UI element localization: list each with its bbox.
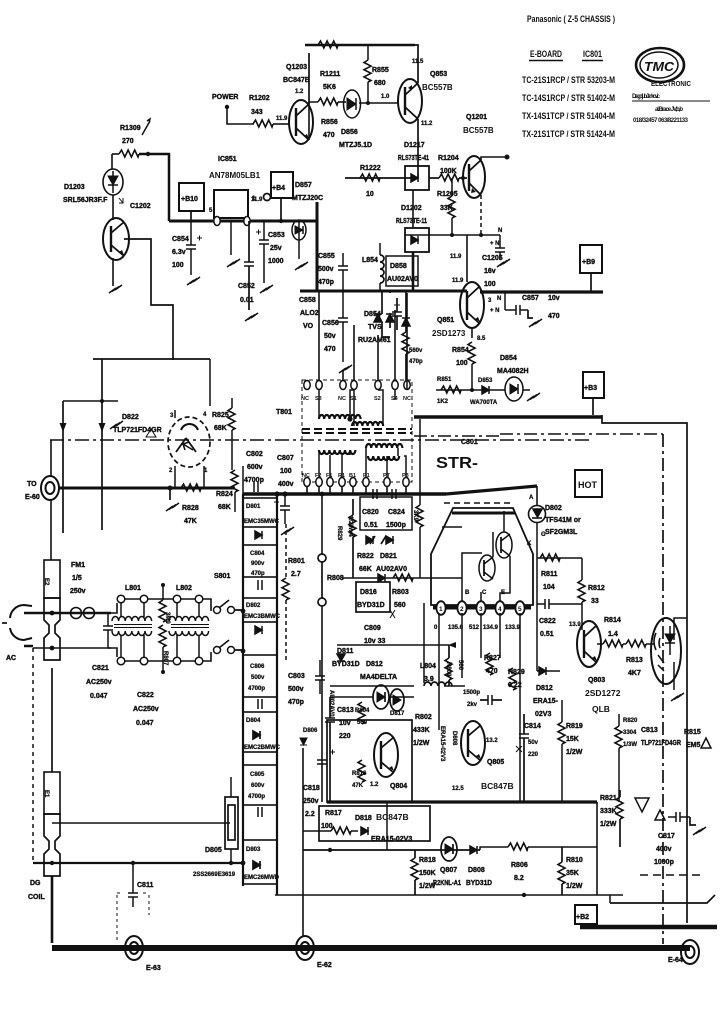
svg-text:0.047: 0.047 bbox=[90, 693, 108, 700]
wire +B4 stem bbox=[280, 198, 282, 221]
diode D1217 box bbox=[405, 166, 429, 190]
diode pair D854 bbox=[374, 314, 394, 322]
resistor R816 vertical bbox=[358, 760, 365, 782]
logo TMC ellipse bbox=[636, 48, 684, 82]
junction bbox=[282, 491, 287, 496]
svg-text:R816: R816 bbox=[352, 771, 367, 777]
svg-text:TC-14S1RCP / STR 51402-M: TC-14S1RCP / STR 51402-M bbox=[522, 93, 615, 103]
L801 stubs bbox=[121, 603, 144, 657]
diode D802b bbox=[255, 626, 262, 634]
wire +B10 stem bbox=[190, 211, 192, 221]
capacitor snubber bbox=[392, 312, 402, 316]
resistor R804 vertical bbox=[358, 702, 365, 724]
svg-text:BC557B: BC557B bbox=[463, 126, 494, 135]
wire Q851 base up bbox=[466, 235, 468, 282]
transistor Q853 bbox=[398, 79, 422, 123]
dashes AC vertical bbox=[32, 648, 34, 863]
svg-text:D817: D817 bbox=[390, 711, 405, 717]
resistor 3K9 vertical bbox=[416, 505, 423, 527]
svg-text:AU02AV0: AU02AV0 bbox=[387, 276, 418, 283]
dashed box C811 bbox=[117, 895, 149, 943]
L801 winding top bbox=[112, 617, 152, 622]
wire x63 down bbox=[62, 401, 64, 533]
junction bbox=[461, 176, 465, 180]
wire y558 bbox=[537, 557, 582, 559]
svg-text:BC847B: BC847B bbox=[283, 77, 310, 84]
svg-text:R854: R854 bbox=[452, 347, 469, 354]
svg-text:D822: D822 bbox=[122, 414, 139, 421]
resistor R810 vertical bbox=[558, 862, 565, 884]
svg-text:100: 100 bbox=[321, 823, 333, 830]
wire AC top bbox=[33, 612, 111, 615]
svg-text:133.9: 133.9 bbox=[505, 625, 521, 631]
svg-text:R815: R815 bbox=[684, 729, 701, 736]
svg-text:R817: R817 bbox=[325, 810, 342, 817]
wire R854 down bbox=[471, 364, 473, 390]
svg-text:1.0: 1.0 bbox=[381, 94, 390, 100]
svg-text:343: 343 bbox=[251, 109, 263, 116]
diode D821 sym bbox=[378, 574, 385, 582]
wire D856 to Q853 base bbox=[359, 102, 398, 104]
svg-text:D802: D802 bbox=[246, 603, 261, 609]
bottom winding feeds bbox=[319, 448, 406, 477]
diode D804 bbox=[253, 731, 260, 739]
svg-text:3304: 3304 bbox=[623, 730, 637, 736]
svg-text:C821: C821 bbox=[92, 665, 109, 672]
svg-text:Q853: Q853 bbox=[430, 71, 447, 78]
svg-text:11.9: 11.9 bbox=[452, 278, 464, 284]
wire to Q1203 base bbox=[273, 123, 289, 125]
bottom pins bbox=[304, 478, 310, 487]
svg-text:AC: AC bbox=[6, 655, 16, 662]
svg-text:+B10: +B10 bbox=[181, 196, 198, 203]
L801 winding bottom bbox=[112, 631, 152, 636]
svg-text:680: 680 bbox=[374, 80, 386, 87]
ground C852 bbox=[245, 313, 258, 321]
svg-text:1/2Wx4: 1/2Wx4 bbox=[347, 516, 353, 537]
svg-text:R856: R856 bbox=[321, 119, 338, 126]
wire pin3 up bbox=[174, 410, 176, 418]
svg-text:ERA15-02V3: ERA15-02V3 bbox=[439, 726, 445, 762]
svg-text:C806: C806 bbox=[250, 664, 265, 670]
svg-text:1000: 1000 bbox=[268, 258, 284, 265]
junction bbox=[279, 219, 283, 223]
svg-text:470p: 470p bbox=[318, 279, 334, 286]
svg-text:C813: C813 bbox=[641, 727, 658, 734]
junction dot on R1309 wire bbox=[146, 152, 150, 156]
svg-text:R2KNL-A1: R2KNL-A1 bbox=[433, 880, 461, 887]
junction bbox=[131, 861, 135, 865]
svg-text:AU02AV0: AU02AV0 bbox=[376, 566, 407, 573]
junction bbox=[241, 609, 246, 614]
wire Q1201 emitter top right stub bbox=[481, 157, 505, 160]
svg-text:R803: R803 bbox=[392, 589, 409, 596]
wire D805 top bbox=[230, 777, 232, 863]
svg-text:D808: D808 bbox=[451, 731, 457, 746]
ground Q1202 bbox=[109, 285, 122, 293]
svg-text:L804: L804 bbox=[420, 663, 436, 670]
svg-text:02V3: 02V3 bbox=[535, 711, 551, 718]
diode box D801 bbox=[243, 498, 277, 527]
diode D1203 circle bbox=[103, 169, 123, 195]
spark gap R808 bbox=[318, 554, 326, 606]
svg-text:0.047: 0.047 bbox=[136, 720, 154, 727]
svg-text:D808: D808 bbox=[468, 867, 485, 874]
svg-text:C857: C857 bbox=[522, 295, 539, 302]
cap box C806 bbox=[243, 655, 277, 697]
wire E1 drop bbox=[51, 668, 53, 772]
wire D1202 down to snubber rail bbox=[412, 252, 415, 291]
svg-text:R807: R807 bbox=[162, 651, 168, 666]
svg-text:E2: E2 bbox=[43, 578, 49, 586]
svg-text:R801: R801 bbox=[288, 558, 305, 565]
wire Q1203 emitter to R856 line bbox=[309, 102, 318, 140]
svg-text:EMC35MWC: EMC35MWC bbox=[244, 519, 280, 525]
svg-text:C855: C855 bbox=[318, 253, 335, 260]
svg-text:D1202: D1202 bbox=[401, 205, 422, 212]
svg-text:TVS: TVS bbox=[368, 324, 382, 331]
svg-text:D805: D805 bbox=[205, 847, 222, 854]
dash-dot hot boundary right bbox=[414, 434, 663, 436]
svg-text:R828: R828 bbox=[182, 505, 199, 512]
L802 core bbox=[171, 625, 209, 628]
junction bbox=[347, 416, 352, 421]
svg-text:104: 104 bbox=[543, 584, 555, 591]
svg-text:N: N bbox=[498, 228, 502, 234]
resistor R803 zigzag bbox=[393, 574, 413, 581]
logo underline bbox=[632, 100, 710, 102]
svg-text:0.51: 0.51 bbox=[540, 631, 554, 638]
wire R855 top/bottom bbox=[367, 45, 369, 103]
svg-text:R1204: R1204 bbox=[438, 155, 459, 162]
IC801 bottom bar bbox=[433, 605, 531, 610]
line y235 bbox=[405, 234, 500, 236]
vertical x303 bbox=[302, 748, 304, 936]
svg-text:NC: NC bbox=[301, 396, 309, 402]
svg-text:AN78M05LB1: AN78M05LB1 bbox=[209, 171, 261, 180]
arrow x102 bbox=[99, 423, 106, 432]
svg-text:BC847B: BC847B bbox=[376, 812, 409, 822]
thick wire E60 to coupler bbox=[59, 487, 235, 490]
svg-text:F2: F2 bbox=[315, 473, 321, 479]
wire y831 from x303 bbox=[303, 830, 322, 832]
transistor Q1203 bbox=[289, 100, 313, 144]
svg-text:1K2: 1K2 bbox=[437, 399, 449, 405]
svg-text:100: 100 bbox=[280, 468, 292, 475]
resistor R855 vertical bbox=[364, 60, 371, 82]
svg-text:R802: R802 bbox=[415, 714, 432, 721]
svg-text:2: 2 bbox=[460, 606, 464, 613]
wire R1204 to Q1201 bbox=[459, 177, 467, 179]
svg-text:1/2W: 1/2W bbox=[600, 821, 617, 828]
small triangle C817 bbox=[655, 810, 665, 820]
svg-text:470p: 470p bbox=[251, 571, 265, 577]
svg-text:1500p: 1500p bbox=[386, 522, 406, 529]
svg-text:1/2W: 1/2W bbox=[566, 749, 583, 756]
top rail thick bbox=[305, 44, 415, 47]
svg-text:ELECTRONIC: ELECTRONIC bbox=[651, 81, 691, 88]
svg-text:1.2: 1.2 bbox=[295, 89, 304, 95]
svg-text:R1211: R1211 bbox=[320, 71, 340, 78]
core dashes bbox=[302, 429, 412, 433]
svg-text:D1203: D1203 bbox=[64, 184, 85, 191]
test point triangle bbox=[635, 798, 649, 812]
vertical resistor R829 bbox=[349, 515, 356, 537]
svg-text:+ N: + N bbox=[490, 308, 500, 314]
svg-text:C817: C817 bbox=[658, 833, 675, 840]
photocoupler D813 bbox=[651, 618, 681, 684]
svg-text:POWER: POWER bbox=[212, 94, 238, 101]
svg-text:R809: R809 bbox=[445, 662, 451, 677]
primary winding row2 bbox=[352, 422, 383, 426]
wire R808 bottom down bbox=[321, 606, 323, 802]
circled zener Q807 bbox=[441, 837, 457, 861]
svg-text:018/32457 063/8221133: 018/32457 063/8221133 bbox=[633, 118, 689, 124]
vertical wires into bottom block bbox=[439, 628, 520, 802]
resistor R851 zigzag bbox=[441, 386, 461, 393]
IC851 gnd stub bbox=[230, 221, 232, 255]
IC851 pin 5 bbox=[214, 217, 220, 226]
ground stub bbox=[169, 488, 171, 500]
svg-text:10v: 10v bbox=[339, 720, 351, 727]
connector E2 box bbox=[44, 560, 60, 598]
box around Q804 group bbox=[327, 720, 412, 802]
svg-text:220: 220 bbox=[528, 752, 539, 758]
capacitor C855 bbox=[338, 266, 348, 270]
svg-text:66K: 66K bbox=[359, 566, 372, 573]
bottom bus thick bbox=[52, 945, 690, 951]
ground C854 bbox=[187, 277, 200, 285]
svg-text:600v: 600v bbox=[247, 464, 263, 471]
svg-text:470: 470 bbox=[323, 132, 335, 139]
svg-text:E-64: E-64 bbox=[668, 957, 683, 964]
svg-text:13.2: 13.2 bbox=[486, 738, 498, 744]
svg-text:TX-14S1TCP / STR 51404-M: TX-14S1TCP / STR 51404-M bbox=[522, 111, 615, 121]
resistor R818 vertical bbox=[411, 858, 418, 880]
IC801 pins bbox=[436, 601, 524, 615]
wire power down bbox=[227, 107, 254, 124]
wire y401 bbox=[63, 400, 118, 402]
svg-text:B1: B1 bbox=[349, 473, 356, 479]
capacitor C820 bbox=[373, 489, 377, 499]
svg-text:E: E bbox=[501, 590, 505, 596]
svg-text:FM1: FM1 bbox=[71, 562, 85, 569]
svg-text:R825: R825 bbox=[212, 412, 229, 419]
wire y850 bbox=[303, 849, 480, 851]
connector E1 box bbox=[44, 772, 60, 814]
svg-text:8.2: 8.2 bbox=[514, 875, 524, 882]
svg-text:MTZJ20C: MTZJ20C bbox=[292, 195, 323, 202]
svg-text:R855: R855 bbox=[372, 67, 389, 74]
svg-text:C1202: C1202 bbox=[130, 203, 151, 210]
svg-text:C852: C852 bbox=[238, 283, 255, 290]
C820 C824 box bbox=[360, 497, 412, 530]
svg-text:TC-21S1RCP / STR 53203-M: TC-21S1RCP / STR 53203-M bbox=[522, 75, 615, 85]
cap plus bbox=[197, 236, 202, 241]
svg-text:R814: R814 bbox=[604, 617, 621, 624]
wire Q1201 collector dashes bbox=[480, 195, 482, 235]
svg-text:400v: 400v bbox=[278, 481, 294, 488]
svg-text:Drago!jub Jankovic: Drago!jub Jankovic bbox=[632, 94, 661, 100]
svg-text:512: 512 bbox=[469, 625, 480, 631]
svg-text:TO: TO bbox=[27, 481, 37, 488]
wire Q853 emitter up to rail bbox=[415, 45, 418, 83]
svg-text:33: 33 bbox=[591, 598, 599, 605]
svg-text:C802: C802 bbox=[246, 451, 263, 458]
circled diode D812b bbox=[373, 685, 389, 709]
svg-text:+B2: +B2 bbox=[576, 914, 589, 921]
wire right border top bbox=[602, 415, 687, 923]
bridge right rail bbox=[276, 494, 278, 895]
main DC bus y494 thick bbox=[243, 492, 446, 496]
svg-text:0.01: 0.01 bbox=[240, 297, 254, 304]
svg-text:S801: S801 bbox=[214, 573, 230, 580]
ground C857 bbox=[529, 319, 542, 327]
svg-text:D812: D812 bbox=[366, 661, 383, 668]
resistor R809b label bbox=[445, 658, 452, 680]
svg-text:DG: DG bbox=[30, 880, 41, 887]
svg-text:+B9: +B9 bbox=[582, 259, 595, 266]
svg-text:+B3: +B3 bbox=[584, 385, 597, 392]
junction bbox=[328, 848, 332, 852]
wire pin1 down bbox=[203, 466, 205, 488]
svg-text:100K: 100K bbox=[440, 168, 457, 175]
svg-text:D818: D818 bbox=[355, 815, 372, 822]
hot bus y415 thick bbox=[414, 415, 602, 419]
svg-text:EMC2BMWC: EMC2BMWC bbox=[244, 745, 281, 751]
junction bbox=[470, 388, 474, 392]
junction bbox=[479, 233, 483, 237]
svg-text:R811: R811 bbox=[541, 571, 557, 578]
svg-text:Q807: Q807 bbox=[440, 867, 457, 874]
resistor R825 vertical bbox=[228, 408, 235, 430]
svg-text:R829: R829 bbox=[508, 669, 525, 676]
svg-text:R804: R804 bbox=[355, 708, 370, 714]
transistor Q1201 bbox=[463, 156, 485, 198]
resistor R1309 zigzag bbox=[119, 150, 139, 157]
capacitor C852 bbox=[244, 262, 254, 266]
thick rail y802 bbox=[327, 800, 597, 803]
junction bbox=[161, 670, 165, 674]
wire D1203 to Q1202 bbox=[112, 195, 114, 220]
wire y863 bbox=[33, 862, 243, 864]
svg-text:NC: NC bbox=[403, 396, 411, 402]
ground D857 bbox=[295, 262, 308, 270]
svg-text:2SD1272: 2SD1272 bbox=[585, 688, 621, 698]
switch S801 bottom bbox=[214, 640, 235, 654]
resistor R1204 zigzag bbox=[439, 174, 459, 181]
svg-text:EMC3BMWC: EMC3BMWC bbox=[244, 614, 281, 620]
svg-text:150K: 150K bbox=[419, 870, 436, 877]
svg-text:1000p: 1000p bbox=[654, 859, 674, 866]
svg-text:470p: 470p bbox=[288, 699, 304, 706]
svg-text:470: 470 bbox=[324, 346, 336, 353]
svg-text:C824: C824 bbox=[388, 509, 405, 516]
svg-text:C809: C809 bbox=[364, 625, 381, 632]
svg-text:13.9: 13.9 bbox=[569, 622, 581, 628]
resistor R854 vertical bbox=[468, 342, 475, 364]
svg-text:MA4082H: MA4082H bbox=[497, 368, 529, 375]
wire Q1203 collector up bbox=[308, 53, 310, 104]
wire AC bottom bbox=[33, 647, 111, 649]
wire y823 to D805 bbox=[52, 822, 230, 824]
wire DG down to bus bbox=[51, 876, 54, 943]
wire y847 r806 to x597 bbox=[528, 846, 597, 848]
svg-text:BYD31D: BYD31D bbox=[466, 880, 492, 887]
svg-text:ALO2: ALO2 bbox=[300, 310, 319, 317]
terminal E-64 bbox=[681, 940, 699, 964]
svg-text:11.9: 11.9 bbox=[251, 197, 263, 203]
wire pin2 down bbox=[174, 466, 176, 488]
svg-text:8.5: 8.5 bbox=[477, 336, 486, 342]
wire R1205 bbox=[451, 178, 453, 235]
svg-text:D854: D854 bbox=[500, 355, 517, 362]
svg-text:D811: D811 bbox=[337, 648, 353, 655]
svg-text:12.5: 12.5 bbox=[452, 786, 464, 792]
wires bottom pins down bbox=[307, 487, 406, 494]
svg-text:C853: C853 bbox=[268, 232, 285, 239]
svg-text:IC801: IC801 bbox=[583, 49, 602, 59]
svg-text:ERA15-02V3: ERA15-02V3 bbox=[371, 836, 412, 843]
svg-text:+ N: + N bbox=[490, 241, 500, 247]
wire +B3 stem bbox=[592, 398, 594, 415]
svg-text:15K: 15K bbox=[566, 736, 579, 743]
L801 core bbox=[114, 625, 152, 628]
bus over IC bbox=[446, 486, 537, 494]
resistor R820 vertical bbox=[615, 726, 622, 748]
capacitor C853 bbox=[259, 240, 269, 244]
svg-text:16v: 16v bbox=[484, 268, 496, 275]
IC801 inner transistor 2 bbox=[496, 532, 512, 558]
svg-text:C1205: C1205 bbox=[482, 255, 503, 262]
svg-text:Q1201: Q1201 bbox=[466, 114, 487, 121]
svg-text:L801: L801 bbox=[125, 585, 141, 592]
filter bottom link wires bbox=[108, 648, 211, 661]
wire R808 top bbox=[321, 494, 323, 554]
svg-text:N: N bbox=[497, 296, 501, 302]
svg-text:333K: 333K bbox=[600, 808, 617, 815]
diode D801 bbox=[255, 531, 262, 539]
svg-text:Q1203: Q1203 bbox=[286, 64, 307, 71]
svg-text:Panasonic ( Z-5 CHASSIS ): Panasonic ( Z-5 CHASSIS ) bbox=[527, 14, 615, 24]
resistor R806 bbox=[508, 843, 528, 850]
svg-text:R1205: R1205 bbox=[437, 191, 458, 198]
svg-text:500v: 500v bbox=[318, 266, 334, 273]
svg-text:AU02AV0: AU02AV0 bbox=[328, 690, 334, 717]
svg-text:400v: 400v bbox=[656, 846, 672, 853]
wire L804 row bbox=[330, 685, 465, 687]
resistor snubber vertical bbox=[402, 332, 409, 354]
IC851 body bbox=[214, 190, 248, 218]
bridge left rail bbox=[242, 494, 244, 886]
svg-text:A: A bbox=[529, 495, 534, 501]
svg-text:E-BOARD: E-BOARD bbox=[530, 49, 562, 59]
capacitor C821 bbox=[103, 626, 113, 630]
switch arrow near R1309 bbox=[142, 119, 150, 135]
small sym bbox=[146, 429, 156, 437]
zener D857 circle bbox=[292, 220, 306, 240]
svg-text:BYD31D: BYD31D bbox=[357, 602, 385, 609]
vertical x424 bbox=[423, 603, 425, 683]
svg-text:50v: 50v bbox=[528, 740, 539, 746]
junction dots on AC lines bbox=[50, 611, 55, 616]
svg-text:500v: 500v bbox=[251, 675, 265, 681]
diode D854 circled bbox=[505, 377, 523, 401]
box D818 label area bbox=[319, 806, 430, 841]
resistor R812 vertical bbox=[578, 580, 585, 602]
svg-text:R829: R829 bbox=[336, 526, 342, 541]
svg-text:100: 100 bbox=[172, 262, 184, 269]
